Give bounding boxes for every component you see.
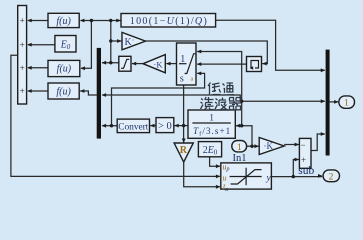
svg-text:f(u): f(u): [57, 64, 72, 75]
svg-text:u: u: [223, 173, 227, 182]
svg-text:+: +: [20, 63, 25, 73]
svg-text:1: 1: [209, 114, 214, 124]
svg-text:+: +: [20, 16, 25, 26]
svg-text:1: 1: [344, 99, 349, 109]
svg-text:+: +: [301, 155, 306, 165]
svg-text:R: R: [180, 145, 188, 156]
svg-text:sub: sub: [298, 165, 314, 177]
svg-text:f(u): f(u): [56, 87, 71, 98]
svg-text:·K: ·K: [154, 59, 164, 69]
svg-text:2: 2: [329, 173, 334, 183]
svg-text:1: 1: [180, 54, 185, 65]
svg-text:+: +: [20, 40, 25, 50]
svg-text:+: +: [20, 86, 25, 96]
svg-text:s: s: [180, 74, 184, 85]
svg-text:y: y: [266, 174, 272, 184]
svg-text:1: 1: [237, 143, 242, 153]
svg-text:a: a: [191, 77, 194, 83]
svg-text:> 0: > 0: [158, 121, 172, 132]
svg-text:Convert: Convert: [118, 122, 148, 132]
svg-text:In1: In1: [233, 153, 247, 164]
svg-text:−: −: [300, 140, 305, 150]
svg-text:·K: ·K: [264, 141, 274, 151]
svg-text:f(u): f(u): [56, 16, 71, 27]
